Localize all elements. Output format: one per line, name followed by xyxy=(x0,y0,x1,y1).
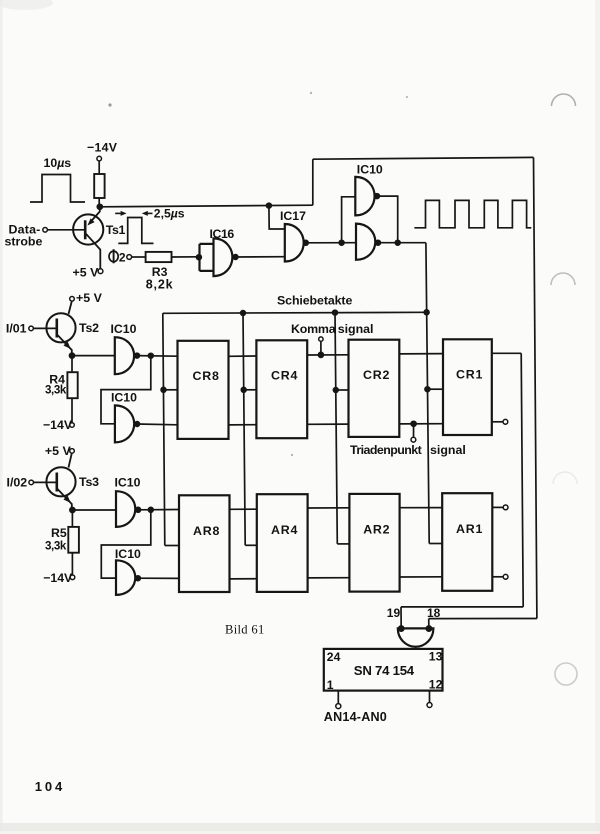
node wrap branch (Ts2) xyxy=(148,353,153,358)
svg-text:SN 74 154: SN 74 154 xyxy=(354,663,415,678)
wire AR8-AR4 top xyxy=(230,508,257,510)
wire IC16 to IC17 xyxy=(236,256,285,258)
svg-text:IC10: IC10 xyxy=(357,163,383,177)
svg-text:CR8: CR8 xyxy=(193,369,220,383)
svg-text:IC10: IC10 xyxy=(115,476,141,490)
label pin 13 xyxy=(429,649,443,663)
node CR2 clock xyxy=(333,388,338,393)
label 2,5us xyxy=(154,207,185,221)
label pin 1 xyxy=(327,678,334,692)
terminal AR1 output top xyxy=(503,505,508,510)
wire node to R4 xyxy=(71,356,73,373)
wire base Ts2 xyxy=(34,327,56,329)
wire pin19 run left xyxy=(401,606,523,608)
wire top run to right xyxy=(313,157,534,159)
wire base Ts1 xyxy=(47,229,84,231)
svg-text:−14V: −14V xyxy=(43,418,73,432)
wire Schiebetakte bus xyxy=(163,312,427,313)
svg-text:AR1: AR1 xyxy=(456,522,483,536)
wire Ts2 collector xyxy=(69,301,72,314)
gate IC10 Ts2 upper xyxy=(115,337,134,374)
wire base Ts3 xyxy=(34,481,56,483)
node Ts1 collector junction xyxy=(97,204,102,209)
node Komma junction xyxy=(318,352,323,357)
node CR1 clock branch xyxy=(425,387,430,392)
svg-text:Triadenpunkt: Triadenpunkt xyxy=(350,443,422,457)
svg-text:18: 18 xyxy=(427,606,441,620)
terminal -14V (Ts2) xyxy=(70,423,75,428)
label Triadenpunkt signal xyxy=(350,443,466,457)
label IC10 (clock pair) xyxy=(357,163,383,177)
label R4 xyxy=(49,373,65,387)
annotation arrows 2,5us xyxy=(115,211,152,216)
wire wrap to lower gate (Ts3) xyxy=(101,510,151,578)
resistor R5 xyxy=(68,527,79,553)
label Ts2 xyxy=(79,321,99,335)
label Komma signal xyxy=(291,322,374,336)
label CR8 xyxy=(193,369,220,383)
terminal Komma signal xyxy=(319,337,323,341)
label R5 xyxy=(51,526,67,540)
label -14V (Ts3) xyxy=(43,571,73,585)
svg-text:IC17: IC17 xyxy=(280,209,306,223)
node clock/schiebetakte xyxy=(424,310,429,315)
node pin 19 input xyxy=(399,626,404,631)
label page number 104 xyxy=(35,779,65,794)
label R3 xyxy=(152,265,168,279)
label AR2 xyxy=(363,523,390,537)
label I/01 xyxy=(6,321,27,335)
node wrap branch (Ts3) xyxy=(148,507,153,512)
label -14V (Ts1 collector supply) xyxy=(87,141,118,155)
label AR8 xyxy=(193,524,220,538)
wire IC17 out to IC10 pair xyxy=(306,242,356,244)
label 8,2k xyxy=(146,277,174,291)
node pin 18 input xyxy=(426,626,431,631)
wire CR2-CR1 top xyxy=(399,353,443,355)
label SN 74154 xyxy=(354,663,415,678)
svg-text:1: 1 xyxy=(327,678,334,692)
transistor Ts1 xyxy=(73,207,103,269)
gate IC10 Ts2 lower xyxy=(115,405,134,442)
block CR8 xyxy=(178,341,229,439)
block AR2 xyxy=(349,494,399,592)
label 3,3k (R5) xyxy=(45,540,67,553)
block CR1 xyxy=(443,339,492,435)
node CR8 clock xyxy=(161,387,166,392)
svg-text:−14V: −14V xyxy=(87,141,118,155)
wire Ts2 node to gate xyxy=(72,355,115,357)
svg-text:19: 19 xyxy=(387,606,401,620)
gate above SN74154 xyxy=(398,628,434,646)
label Ts1 xyxy=(106,223,126,237)
terminal -14V xyxy=(97,156,102,161)
svg-text:I/01: I/01 xyxy=(6,321,27,335)
node Triadenpunkt junction xyxy=(411,421,416,426)
node Ts3 emitter xyxy=(70,508,75,513)
block AR4 xyxy=(257,494,308,592)
node IC17 output xyxy=(303,240,308,245)
svg-text:104: 104 xyxy=(35,779,65,794)
svg-text:2,5µs: 2,5µs xyxy=(154,207,185,221)
node Ts2 lower gate output xyxy=(135,422,140,427)
terminal -14V (Ts3) xyxy=(70,575,75,580)
label pin 19 xyxy=(387,606,401,620)
terminal +5V (Ts1 emitter) xyxy=(98,269,103,274)
wire gate out to CR8 xyxy=(137,355,178,358)
gate IC10 upper (clock) xyxy=(355,177,374,216)
wire loop bottom to pin 18 xyxy=(429,618,537,620)
terminal +5V (Ts3) xyxy=(70,449,75,454)
wire CR4-CR2 top xyxy=(307,354,348,356)
wire main horizontal node to riser xyxy=(100,205,313,207)
node IC16 output xyxy=(233,255,238,260)
node outputs tied xyxy=(395,240,400,245)
node Ts3 lower gate output xyxy=(136,576,141,581)
gate IC10 Ts3 lower xyxy=(116,560,135,595)
svg-text:Ts1: Ts1 xyxy=(106,223,126,237)
label pin 12 xyxy=(429,677,443,691)
terminal I/02 xyxy=(29,480,34,485)
svg-text:2: 2 xyxy=(119,251,126,265)
wire gate to box xyxy=(415,647,417,649)
label Data-strobe xyxy=(5,222,43,248)
block AR8 xyxy=(179,495,230,592)
label pin 18 xyxy=(427,606,441,620)
block AR1 xyxy=(442,493,492,591)
wire AR1 output stub top xyxy=(492,506,503,508)
label 10us xyxy=(44,156,72,170)
label pin 24 xyxy=(327,650,341,664)
svg-text:12: 12 xyxy=(429,677,443,691)
wire -14V to R xyxy=(98,161,100,174)
wire phi2 to R3 xyxy=(132,256,146,258)
svg-text:+5 V: +5 V xyxy=(45,444,72,458)
node IC17 upper input tap xyxy=(267,203,272,208)
waveform clock square wave xyxy=(414,200,531,227)
svg-text:+5 V: +5 V xyxy=(73,266,100,280)
terminal CR1 output xyxy=(503,419,508,424)
svg-text:Bild 61: Bild 61 xyxy=(225,623,265,637)
wire bus drop 3 xyxy=(335,313,337,544)
wire CR1 clock xyxy=(427,388,443,390)
node lower gate output xyxy=(376,240,381,245)
svg-text:AN14-AN0: AN14-AN0 xyxy=(324,710,387,724)
node bus drop 2 xyxy=(241,311,246,316)
label AR4 xyxy=(271,523,298,537)
svg-text:AR8: AR8 xyxy=(193,524,220,538)
svg-text:−14V: −14V xyxy=(43,571,73,585)
wire CR4-CR2 bottom xyxy=(307,423,348,425)
label I/02 xyxy=(7,475,28,489)
svg-text:+5 V: +5 V xyxy=(76,291,103,305)
label +5V (Ts3) xyxy=(45,444,72,458)
wire AR8 clock xyxy=(165,545,179,547)
gate IC10 Ts3 upper xyxy=(116,491,135,527)
wire node to R5 xyxy=(71,510,73,527)
svg-text:CR4: CR4 xyxy=(271,368,298,382)
wire upper output wrap xyxy=(377,196,398,243)
node upper gate output xyxy=(375,194,380,199)
IC SN74154 box xyxy=(324,649,443,691)
label AN14-AN0 xyxy=(324,710,387,724)
wire Ts3 node to gate xyxy=(72,509,116,511)
label -14V (Ts2) xyxy=(43,418,73,432)
wire pin 18 drop xyxy=(428,619,430,629)
svg-text:AR4: AR4 xyxy=(271,523,298,537)
svg-text:10µs: 10µs xyxy=(44,156,72,170)
node Ts3 upper gate output xyxy=(136,507,141,512)
svg-text:3,3k: 3,3k xyxy=(45,383,67,396)
wire riser up xyxy=(312,159,314,205)
svg-text:CR2: CR2 xyxy=(363,368,390,382)
wire branch up to upper gate xyxy=(342,197,356,243)
wire AR1 output stub bottom xyxy=(492,576,503,578)
svg-text:Ts3: Ts3 xyxy=(79,475,99,489)
wire gate out to AR8 xyxy=(138,509,179,511)
svg-text:8,2k: 8,2k xyxy=(146,277,174,291)
wire pin19 riser down xyxy=(521,353,523,607)
terminal pin 1 xyxy=(336,704,341,709)
label Bild 61 xyxy=(225,623,265,637)
label Ts3 xyxy=(79,475,99,489)
gate IC10 lower (clock) xyxy=(356,224,375,260)
wire R to node xyxy=(98,198,100,207)
waveform 2,5us pulse xyxy=(118,218,153,244)
label IC16 xyxy=(210,227,235,241)
svg-text:Schiebetakte: Schiebetakte xyxy=(277,294,352,308)
svg-text:IC10: IC10 xyxy=(111,391,137,405)
label IC10 (Ts2 lower) xyxy=(111,391,137,405)
node CR4 clock xyxy=(241,387,246,392)
wire tap down to IC17 xyxy=(269,206,285,229)
node IC16 input xyxy=(197,255,202,260)
label AR1 xyxy=(456,522,483,536)
svg-text:AR2: AR2 xyxy=(363,523,390,537)
node IC10 input branch xyxy=(339,240,344,245)
svg-text:24: 24 xyxy=(327,650,341,664)
label CR2 xyxy=(363,368,390,382)
wire Komma stub xyxy=(320,341,322,355)
wire AR2 clock xyxy=(337,543,349,545)
wire CR2 clock xyxy=(336,389,349,391)
transistor Ts3 xyxy=(46,467,75,510)
terminal +5V (Ts2) xyxy=(70,297,75,302)
wire right loop down xyxy=(534,157,537,618)
svg-text:strobe: strobe xyxy=(5,235,43,249)
wire CR1 output stub xyxy=(492,421,503,423)
wire pin19 drop xyxy=(400,607,402,629)
gate IC17 xyxy=(285,224,304,262)
wire R4 to -14V xyxy=(71,398,73,422)
wire Triadenpunkt stub xyxy=(413,424,415,438)
wire AR1 clock xyxy=(429,543,442,545)
wire R5 to -14V xyxy=(71,553,73,575)
wire clock drop (IC10 out down to AR1) xyxy=(426,243,429,544)
wire pin 1 stub xyxy=(337,691,339,704)
svg-text:IC10: IC10 xyxy=(111,322,137,336)
waveform 10us pulse xyxy=(30,175,85,203)
transistor Ts2 xyxy=(46,313,75,355)
label IC10 (Ts3 upper) xyxy=(115,476,141,490)
wire outputs to clock drop xyxy=(378,242,426,244)
wire AR8-AR4 bottom xyxy=(230,578,257,580)
svg-text:Komma: Komma xyxy=(291,322,336,336)
node bus drop 3 xyxy=(333,310,338,315)
svg-text:R5: R5 xyxy=(51,526,67,540)
wire pin 12 stub xyxy=(429,691,431,703)
label +5V (Ts1) xyxy=(73,266,100,280)
svg-text:Ts2: Ts2 xyxy=(79,321,99,335)
wire R3 to IC16 xyxy=(172,256,199,258)
label phi2 xyxy=(109,249,126,264)
label +5V (Ts2) xyxy=(76,291,103,305)
svg-text:I/02: I/02 xyxy=(7,475,28,489)
label IC10 (Ts2 upper) xyxy=(111,322,137,336)
terminal phi2 xyxy=(127,255,132,260)
resistor R4 xyxy=(67,372,77,398)
block CR4 xyxy=(256,340,307,438)
node Ts2 upper gate output xyxy=(135,353,140,358)
label IC17 xyxy=(280,209,306,223)
wire CR4 clock xyxy=(244,389,257,391)
wire CR2-CR1 bottom xyxy=(399,423,443,425)
wire CR8 clock xyxy=(164,389,178,391)
svg-text:signal: signal xyxy=(430,443,466,457)
label CR4 xyxy=(271,368,298,382)
wire CR8-CR4 bottom xyxy=(229,424,257,426)
wire AR2-AR1 bottom xyxy=(400,576,443,578)
block CR2 xyxy=(349,340,400,437)
svg-text:3,3k: 3,3k xyxy=(45,540,67,553)
svg-text:IC10: IC10 xyxy=(115,547,141,561)
wire Ts3 collector xyxy=(69,453,72,467)
node Ts2 emitter xyxy=(70,353,75,358)
label Schiebetakte xyxy=(277,294,352,308)
wire bus drop 2 xyxy=(243,313,245,545)
wire AR4-AR2 bottom xyxy=(308,577,350,579)
resistor (Ts1 collector, unlabeled) xyxy=(94,174,104,198)
wire AR4 clock xyxy=(245,544,257,546)
svg-text:13: 13 xyxy=(429,649,443,663)
label CR1 xyxy=(456,367,483,381)
svg-text:signal: signal xyxy=(338,322,374,336)
wire CR8-CR4 top xyxy=(229,355,257,357)
terminal pin 12 xyxy=(427,703,432,708)
wire AR2-AR1 top xyxy=(400,507,443,509)
terminal Triadenpunkt signal xyxy=(411,437,416,442)
svg-text:CR1: CR1 xyxy=(456,367,483,381)
wire lower gate out to AR8 xyxy=(138,577,179,579)
wire bus drop 1 xyxy=(163,313,165,545)
resistor R3 xyxy=(146,252,172,262)
gate IC16 xyxy=(200,238,233,276)
label IC10 (Ts3 lower) xyxy=(115,547,141,561)
wire lower gate out to CR8 xyxy=(137,423,177,426)
terminal AR1 output bottom xyxy=(503,574,508,579)
wire wrap to lower gate (Ts2) xyxy=(101,356,151,424)
terminal Data-strobe xyxy=(43,228,48,233)
wire AR4-AR2 top xyxy=(308,507,350,509)
label 3,3k (R4) xyxy=(45,383,67,396)
wire CR1 top-right to pin19 riser xyxy=(492,352,521,354)
terminal I/01 xyxy=(29,326,34,331)
